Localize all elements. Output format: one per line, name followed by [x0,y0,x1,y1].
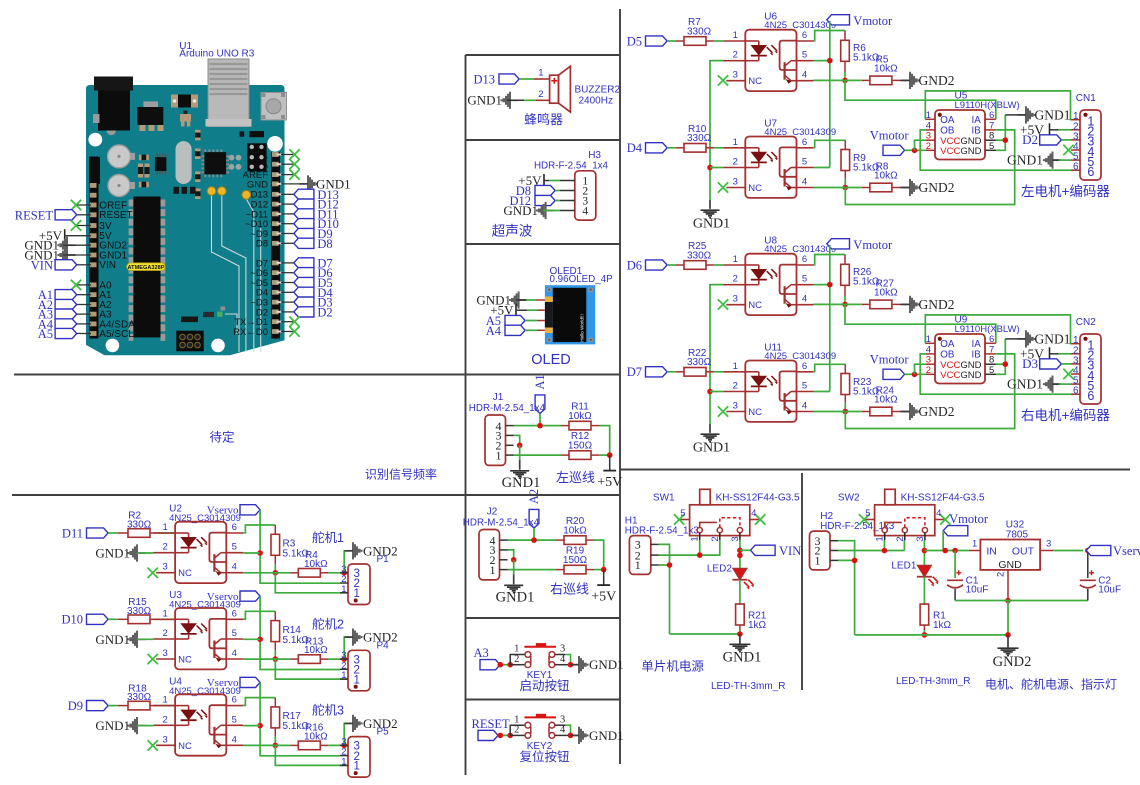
reset button [261,93,287,121]
net flag D4 [627,141,667,155]
left pin header [89,157,98,339]
svg-text:2: 2 [514,654,519,665]
svg-text:GND1: GND1 [589,657,624,672]
ground GND2 [993,635,1032,670]
svg-text:D2: D2 [317,305,332,319]
svg-text:GND1: GND1 [503,203,538,218]
no-connect OREF [77,204,91,206]
svg-text:VIN: VIN [779,544,801,558]
wire [954,551,956,579]
net flag A3 [474,646,501,670]
junction [843,409,849,415]
svg-text:6: 6 [802,30,807,41]
wire [1007,598,1009,601]
svg-text:GND1: GND1 [1007,377,1043,392]
wire [77,304,91,306]
junction [273,570,279,576]
svg-text:CN2: CN2 [1076,317,1096,328]
junction [531,537,537,543]
svg-text:OLED: OLED [531,352,571,368]
frame divider KEY1/KEY2 [466,699,621,701]
svg-text:D9: D9 [68,699,83,713]
svg-text:4: 4 [232,648,237,659]
wire [920,354,1071,394]
smd parts bottom [181,317,198,323]
frame divider left lower [12,494,620,496]
junction [1003,361,1009,367]
resistor R20 10kΩ [563,516,587,544]
svg-text:D3: D3 [1022,356,1038,371]
crystal [176,141,192,184]
svg-text:NC: NC [748,76,762,87]
USB connector [208,59,249,127]
svg-text:2: 2 [162,714,167,725]
svg-text:+5V: +5V [591,590,616,605]
resistor R2 330Ω [127,511,152,538]
svg-text:GND2: GND2 [919,73,955,88]
resistor R7 330Ω [684,17,712,45]
junction [707,389,713,395]
junction [1085,548,1091,554]
resistor R3 5.1kΩ [271,534,309,559]
svg-text:10uF: 10uF [966,585,989,596]
net flag A4 [38,317,77,331]
optocoupler U2 4N25_C3014309 [153,504,243,583]
svg-text:IN: IN [986,546,997,558]
wire [813,364,845,371]
svg-text:VCC: VCC [940,370,960,381]
wire [996,115,1006,150]
junction [257,723,263,729]
ICSP header 2 [176,331,203,352]
svg-text:GND1: GND1 [1007,153,1043,168]
optocoupler U6 4N25_C3014309 [724,12,837,92]
ground flag GND1 [503,202,554,219]
wire [137,552,153,554]
motor driver U9 L9110H(XBLW) [925,315,1019,384]
svg-text:D7: D7 [627,365,642,379]
net flag D12 [281,203,294,205]
smd row [174,187,196,194]
svg-text:330Ω: 330Ω [687,250,712,261]
svg-text:LED1: LED1 [891,560,916,571]
svg-text:1: 1 [353,674,359,686]
net flag D9 [68,699,108,713]
svg-text:330Ω: 330Ω [687,26,712,37]
board pin labels left [99,200,135,340]
wire [667,264,676,266]
header pads 2x2 [229,155,242,170]
svg-text:HDR-F-2.54_1x3: HDR-F-2.54_1x3 [625,525,700,536]
junction [707,165,713,171]
no-connect D1 [281,321,293,323]
svg-text:GND2: GND2 [993,654,1032,670]
wire [243,525,275,533]
transistor [184,111,188,116]
wire [150,532,158,534]
svg-text:5: 5 [802,381,807,392]
svg-text:10kΩ: 10kΩ [874,395,898,406]
svg-text:NC: NC [178,655,192,666]
svg-text:6: 6 [1073,162,1079,173]
wire [739,580,741,604]
net flag D5 [281,282,294,284]
wire [710,61,724,201]
svg-text:RX←D0: RX←D0 [233,327,268,338]
wire [829,21,831,168]
wire [320,572,328,574]
wire [243,611,275,619]
svg-text:OA: OA [940,115,955,126]
connector P1 [340,554,389,605]
wire [514,454,562,456]
svg-text:10kΩ: 10kΩ [874,171,898,182]
svg-text:NC: NC [178,741,192,752]
SMD parts [138,155,150,188]
net flag Vmotor [943,512,989,536]
svg-text:HDR-M-2.54_1x4: HDR-M-2.54_1x4 [463,517,540,528]
wire [813,31,845,41]
svg-text:蜂鸣器: 蜂鸣器 [524,112,563,127]
no-connect [148,740,158,750]
svg-text:SW1: SW1 [653,492,675,503]
ICSP header [247,143,266,171]
wire [591,425,599,427]
junction [842,302,848,308]
net flag D6 [627,258,667,272]
svg-text:Vmotor: Vmotor [870,129,910,143]
svg-text:10uF: 10uF [1098,585,1121,596]
resistor R13 10kΩ [298,636,328,663]
svg-text:NC: NC [178,568,192,579]
wire [915,140,926,150]
ground GND1 [571,656,624,673]
no-connect [148,654,158,664]
wire [925,315,1071,344]
svg-text:右巡线: 右巡线 [550,582,589,597]
net flag Vmotor [870,353,910,380]
svg-text:P1: P1 [377,554,390,565]
net flag A2 [38,298,77,312]
junction [607,452,613,458]
svg-text:6: 6 [989,334,994,345]
wire [1061,139,1071,141]
wire [77,313,91,315]
svg-text:GND: GND [998,559,1022,571]
right SMD column [195,130,201,199]
svg-text:2: 2 [733,274,738,285]
svg-text:1: 1 [972,539,977,550]
ground flag GND1 [24,237,75,254]
junction [827,58,833,64]
svg-text:5: 5 [232,542,237,553]
junction [537,423,543,429]
junction [517,443,523,449]
no-connect [281,174,293,176]
svg-text:330Ω: 330Ω [687,133,712,144]
wire [243,552,260,554]
svg-text:2: 2 [733,157,738,168]
svg-text:CN1: CN1 [1076,93,1096,104]
svg-text:H3: H3 [588,150,601,161]
wire [586,539,594,541]
no-connect 3V [77,225,91,227]
svg-text:5: 5 [802,50,807,61]
wire [813,411,862,413]
junction [737,548,743,554]
Arduino board U1 Arduino UNO R3 [86,41,287,355]
wire [892,303,900,305]
junction [257,550,263,556]
wire [516,299,526,301]
svg-text:舵机1: 舵机1 [312,530,344,545]
wire [137,638,153,640]
connector H1 HDR-F-2.54_1x3 [625,515,700,574]
svg-text:A4: A4 [486,324,502,338]
wire [845,304,996,343]
svg-text:D8: D8 [256,239,268,250]
resistor R15 330Ω [127,597,152,624]
wire [659,544,670,634]
svg-text:A2: A2 [527,489,541,504]
resistor R4 10kΩ [298,550,328,577]
resistor R27 10kΩ [870,278,898,308]
frame divider buzzer/ultrasonic [466,139,621,141]
wire [243,638,260,640]
wire [1053,550,1083,552]
svg-text:D8: D8 [317,237,332,251]
junction [1003,137,1009,143]
junction [667,562,673,568]
wire [892,79,900,81]
svg-text:OA: OA [940,339,955,350]
svg-text:5: 5 [232,714,237,725]
no-connect [281,163,293,165]
junction [1005,632,1011,638]
wire [507,99,524,101]
power flag +5V [490,303,516,318]
svg-text:VIN: VIN [31,258,53,272]
wire [275,745,348,765]
resistor R19 150Ω [563,546,588,574]
wire [519,445,521,460]
net flag Vservo [207,505,260,517]
net flag Vmotor [827,14,893,28]
ground GND1 [693,424,730,456]
ground flag GND1 [476,291,527,308]
pushbutton KEY2 [510,714,578,764]
svg-text:2: 2 [733,381,738,392]
svg-text:单片机电源: 单片机电源 [641,660,704,674]
ground flag GND1 [281,183,307,185]
net flag D2 [281,311,294,313]
wire [555,190,560,192]
svg-text:4: 4 [936,508,941,519]
svg-text:4: 4 [802,294,807,305]
wire [508,569,557,571]
wire [525,329,537,331]
wire [844,171,846,179]
svg-text:GND1: GND1 [496,590,535,606]
svg-text:GND1: GND1 [502,475,541,491]
wire [77,214,91,216]
junction [341,743,347,749]
power flag +5V [518,173,544,188]
white silk traces [212,195,261,352]
net flag D8 [281,242,294,244]
frame divider J2/KEY1 [466,617,621,619]
svg-text:4: 4 [232,562,237,573]
wire [243,658,290,660]
resistor R12 150Ω [568,431,593,459]
wire [1050,129,1059,131]
svg-text:LED2: LED2 [707,563,732,574]
wire [500,664,510,666]
wire [813,79,862,81]
wire [706,147,714,149]
wire [77,294,91,296]
ground flag GND2 [345,715,398,732]
svg-text:5: 5 [232,628,237,639]
mounting hole [211,339,225,353]
svg-text:2: 2 [514,725,519,736]
svg-text:10kΩ: 10kΩ [874,64,898,75]
wire [514,435,520,445]
ground flag GND1 [1007,376,1061,393]
wire [243,744,290,746]
MCU QFP chip [202,149,230,177]
wire [710,391,724,393]
net flag Vservo [207,591,260,603]
svg-text:+5V: +5V [597,475,622,490]
wire [108,618,118,620]
svg-text:VCC: VCC [940,146,960,157]
svg-text:D5: D5 [627,34,642,48]
svg-text:左电机+编码器: 左电机+编码器 [1021,184,1110,199]
net flag D13 [473,73,519,87]
svg-text:GND1: GND1 [1035,331,1071,346]
wire [508,539,557,541]
junction [498,662,504,668]
resistor R9 5.1kΩ [841,150,880,174]
junction [273,656,279,662]
wire [525,320,537,322]
wire [667,371,676,373]
svg-text:3: 3 [733,294,738,305]
svg-text:150Ω: 150Ω [568,440,593,451]
svg-text:4: 4 [582,206,588,218]
wire [706,264,714,266]
svg-text:1: 1 [162,522,167,533]
svg-text:1: 1 [926,334,931,345]
wire [544,180,549,182]
SOIC8 chip [155,154,167,175]
motor driver U5 L9110H(XBLW) [925,91,1019,160]
optocoupler U4 4N25_C3014309 [153,676,243,755]
svg-text:D2: D2 [1022,132,1038,147]
net flag RESET [472,717,511,741]
svg-text:HDR-F-2.54_1x4: HDR-F-2.54_1x4 [534,161,609,172]
svg-text:1: 1 [490,563,496,577]
wire [108,532,118,534]
wire [920,130,1071,170]
net flag RESET [15,208,77,222]
ATMEGA328P label [127,263,166,271]
junction [498,733,504,739]
svg-text:GND2: GND2 [919,404,955,419]
ground flag GND1 [1018,330,1071,347]
connector H2 HDR-F-2.54_1x3 [810,511,895,570]
svg-text:RESET: RESET [99,210,132,221]
wire [845,354,1014,429]
junction [737,631,743,637]
wire [813,187,862,189]
svg-text:5: 5 [680,508,685,519]
net flag A5 [486,314,525,328]
wire [543,210,560,212]
junction [922,632,928,638]
svg-text:IA: IA [972,339,982,350]
svg-text:J2: J2 [487,507,498,518]
wire [320,658,328,660]
svg-text:6: 6 [1087,165,1094,179]
svg-text:RESET: RESET [472,717,511,731]
net flag VIN [751,544,802,558]
svg-text:1: 1 [162,608,167,619]
junction [341,570,347,576]
connector P4 [340,640,389,691]
wire [63,254,91,256]
svg-text:2: 2 [733,50,738,61]
svg-text:A3: A3 [474,646,489,660]
svg-text:LED-TH-3mm_R: LED-TH-3mm_R [711,681,785,692]
no-connect [718,299,728,309]
junction [511,557,517,563]
frame divider right horizontal [620,469,1130,471]
wire [519,78,534,80]
frame divider vertical center [619,9,621,764]
net flag D11 [62,526,108,540]
wire [740,549,751,551]
svg-text:KH-SS12F44-G3.5: KH-SS12F44-G3.5 [716,492,800,503]
wire [260,510,340,583]
net flag A4 [486,324,525,338]
svg-text:P5: P5 [377,727,390,738]
no-connect D0 [281,331,293,333]
svg-text:1: 1 [353,588,359,600]
svg-text:Hello World!!!: Hello World!!! [580,314,585,342]
wire [150,618,158,620]
junction [922,548,928,554]
wire [1053,159,1059,161]
wire [996,339,1006,374]
wire [65,235,91,237]
no-connect [1063,369,1073,379]
connector CN2 [1071,317,1101,404]
wire [710,167,724,169]
ground flag GND1 [95,717,145,734]
net flag A5 [38,327,77,341]
wire [667,147,676,149]
resistor R17 5.1kΩ [271,707,309,732]
svg-text:5: 5 [802,274,807,285]
svg-text:Arduino UNO R3: Arduino UNO R3 [179,49,254,60]
usb interface chip [89,157,100,184]
svg-text:4: 4 [802,177,807,188]
svg-text:GND2: GND2 [919,180,955,195]
svg-text:5: 5 [865,508,870,519]
svg-text:10kΩ: 10kΩ [563,525,587,536]
